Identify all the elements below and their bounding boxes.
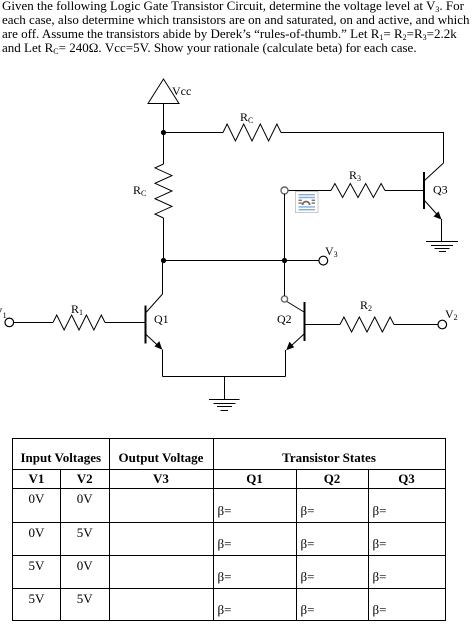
resistor R2 (340, 317, 394, 332)
wire V3 rail (164, 260, 319, 262)
results table (12, 438, 446, 621)
wire R2 to V2 (394, 324, 439, 326)
ground (emitter bus) (209, 400, 240, 411)
problem statement paragraph (2, 0, 474, 55)
wire Q1 emitter down (162, 350, 164, 377)
Q2 label (277, 312, 292, 326)
svg-text:V2: V2 (445, 307, 458, 322)
wire R3 to Q3 base (385, 190, 424, 192)
wire node down to V3 rail (284, 194, 286, 261)
wire emitter bus (163, 376, 286, 378)
wire Q3 emitter to ground (441, 219, 443, 242)
wire Rc to Q3 collector corner (281, 133, 444, 164)
Vcc supply triangle (148, 79, 179, 104)
transistor Q2 (mirrored) (286, 302, 304, 351)
junction node on V3 rail (left) (161, 258, 166, 263)
svg-text:Q2: Q2 (277, 312, 292, 326)
Q1 label (154, 312, 169, 326)
terminal V1 (5, 318, 14, 327)
wire Q1 collector (162, 261, 164, 295)
svg-text:Q3: Q3 (433, 183, 448, 197)
svg-text:Q1: Q1 (154, 312, 169, 326)
R1 label (71, 302, 83, 317)
resistor Rc (vertical) (155, 164, 172, 218)
V1 label (cut off at edge) (0, 305, 7, 320)
wire V3 rail to Q2 collector node (284, 261, 286, 297)
terminal V2 (438, 320, 447, 329)
Vcc label (172, 84, 191, 98)
svg-text:R3: R3 (349, 168, 361, 183)
node terminal (gray) at Q2 collector (281, 296, 287, 302)
svg-text:R1: R1 (71, 302, 83, 317)
terminal V3 (319, 256, 328, 265)
R3 label (349, 168, 361, 183)
R2 label (360, 298, 372, 313)
wire V1 to R1 (14, 322, 53, 324)
transistor Q1 (146, 294, 163, 350)
wire node to R3 (288, 190, 331, 192)
Rc vertical label (133, 183, 146, 198)
wire Vcc junction to Rc vertical (163, 133, 165, 164)
junction node on V3 rail (right) (282, 258, 287, 263)
Q3 label (433, 183, 448, 197)
wire Rc vertical to V3 rail (163, 218, 165, 261)
svg-text:V1: V1 (0, 305, 7, 320)
ground (Q3 emitter) (426, 242, 458, 252)
svg-text:R2: R2 (360, 298, 372, 313)
resistor Rc (horizontal, collector of Q3) (223, 124, 281, 141)
transistor Q3 (424, 163, 444, 220)
wire Q2 base to R2 (306, 324, 341, 326)
Rc horizontal label (240, 110, 253, 125)
wire R1 to Q1 base (105, 322, 145, 324)
junction node at Vcc rail (161, 130, 166, 135)
node terminal (gray) at R3 input (281, 187, 288, 194)
V3 label (325, 244, 338, 259)
wire Q2 emitter down (285, 350, 287, 377)
svg-text:Vcc: Vcc (172, 84, 191, 98)
resistor R1 (53, 315, 105, 330)
V2 label (445, 307, 458, 322)
wire Vcc rail to Rc horizontal (164, 132, 224, 134)
svg-text:V3: V3 (325, 244, 338, 259)
wire Vcc to junction (163, 104, 165, 133)
embedded object placeholder icon (296, 192, 319, 213)
svg-text:RC: RC (240, 110, 253, 125)
resistor R3 (331, 184, 385, 198)
wire bus to ground (224, 377, 226, 400)
svg-text:RC: RC (133, 183, 146, 198)
